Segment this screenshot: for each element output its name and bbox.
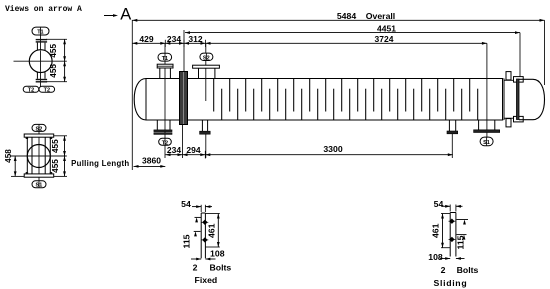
svg-text:T2: T2	[28, 88, 34, 94]
svg-text:T1: T1	[37, 30, 43, 36]
svg-text:429: 429	[139, 34, 153, 44]
svg-text:3300: 3300	[323, 144, 342, 154]
svg-text:S1: S1	[483, 140, 490, 146]
svg-text:2: 2	[193, 263, 198, 273]
svg-text:Fixed: Fixed	[195, 275, 218, 285]
svg-text:461: 461	[207, 223, 217, 238]
svg-text:115: 115	[455, 235, 465, 249]
svg-text:312: 312	[188, 34, 202, 44]
svg-text:A: A	[120, 6, 131, 24]
svg-text:54: 54	[181, 199, 191, 209]
svg-text:Overall: Overall	[366, 11, 395, 21]
svg-text:455: 455	[51, 159, 60, 173]
svg-text:234: 234	[167, 34, 181, 44]
svg-text:Sliding: Sliding	[433, 278, 467, 288]
svg-text:5484: 5484	[337, 11, 356, 21]
svg-text:3724: 3724	[375, 34, 394, 44]
svg-text:S2: S2	[36, 126, 43, 132]
svg-text:T1: T1	[162, 56, 168, 62]
svg-text:T2: T2	[44, 88, 50, 94]
svg-text:115: 115	[181, 234, 191, 248]
svg-text:455: 455	[51, 139, 60, 153]
svg-text:S1: S1	[36, 183, 43, 189]
svg-text:455: 455	[49, 44, 58, 58]
svg-text:Pulling Length: Pulling Length	[71, 159, 129, 168]
svg-text:54: 54	[434, 199, 444, 209]
svg-text:Views on arrow A: Views on arrow A	[5, 5, 82, 14]
svg-text:455: 455	[49, 64, 58, 78]
svg-text:461: 461	[431, 223, 441, 238]
svg-text:2: 2	[441, 265, 446, 275]
svg-text:108: 108	[210, 249, 225, 259]
svg-text:458: 458	[4, 149, 13, 163]
svg-text:234: 234	[167, 145, 181, 155]
svg-text:294: 294	[186, 145, 200, 155]
svg-text:S2: S2	[203, 56, 210, 62]
svg-text:Bolts: Bolts	[210, 263, 232, 273]
svg-text:108: 108	[428, 252, 443, 262]
svg-text:3860: 3860	[142, 156, 161, 166]
svg-text:4451: 4451	[377, 23, 396, 33]
svg-text:Bolts: Bolts	[457, 265, 479, 275]
